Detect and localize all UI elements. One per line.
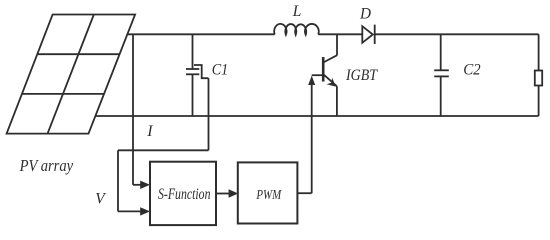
wire V-I sense from bus down to S-Function input 1	[133, 34, 150, 189]
svg-text:I: I	[146, 123, 153, 140]
PV array panel	[7, 15, 136, 134]
block S-Function U1	[150, 162, 216, 225]
wire top bus	[128, 33, 539, 35]
transistor IGBT Q1	[312, 55, 337, 116]
svg-text:V: V	[95, 191, 106, 208]
node junction at inductor-diode	[336, 34, 338, 55]
svg-text:PWM: PWM	[256, 187, 283, 202]
svg-text:L: L	[292, 3, 302, 20]
wire bottom bus	[95, 115, 538, 117]
svg-text:D: D	[359, 6, 371, 23]
svg-text:S-Function: S-Function	[158, 186, 211, 203]
svg-text:IGBT: IGBT	[345, 67, 378, 84]
inductor L	[274, 24, 319, 35]
capacitor C1	[186, 34, 209, 116]
diode D	[362, 25, 374, 44]
svg-text:PV array: PV array	[19, 156, 74, 175]
wire PWM output to IGBT gate	[297, 76, 315, 194]
resistor load R	[535, 71, 542, 86]
block PWM U2	[238, 162, 298, 223]
arrow S-Function to PWM	[216, 189, 238, 197]
wire sense from C1 bracket to S-Function input 2	[118, 78, 209, 215]
capacitor C2	[434, 34, 449, 116]
svg-text:C2: C2	[463, 62, 481, 79]
wire right branch	[538, 34, 540, 116]
svg-text:C1: C1	[212, 61, 229, 78]
